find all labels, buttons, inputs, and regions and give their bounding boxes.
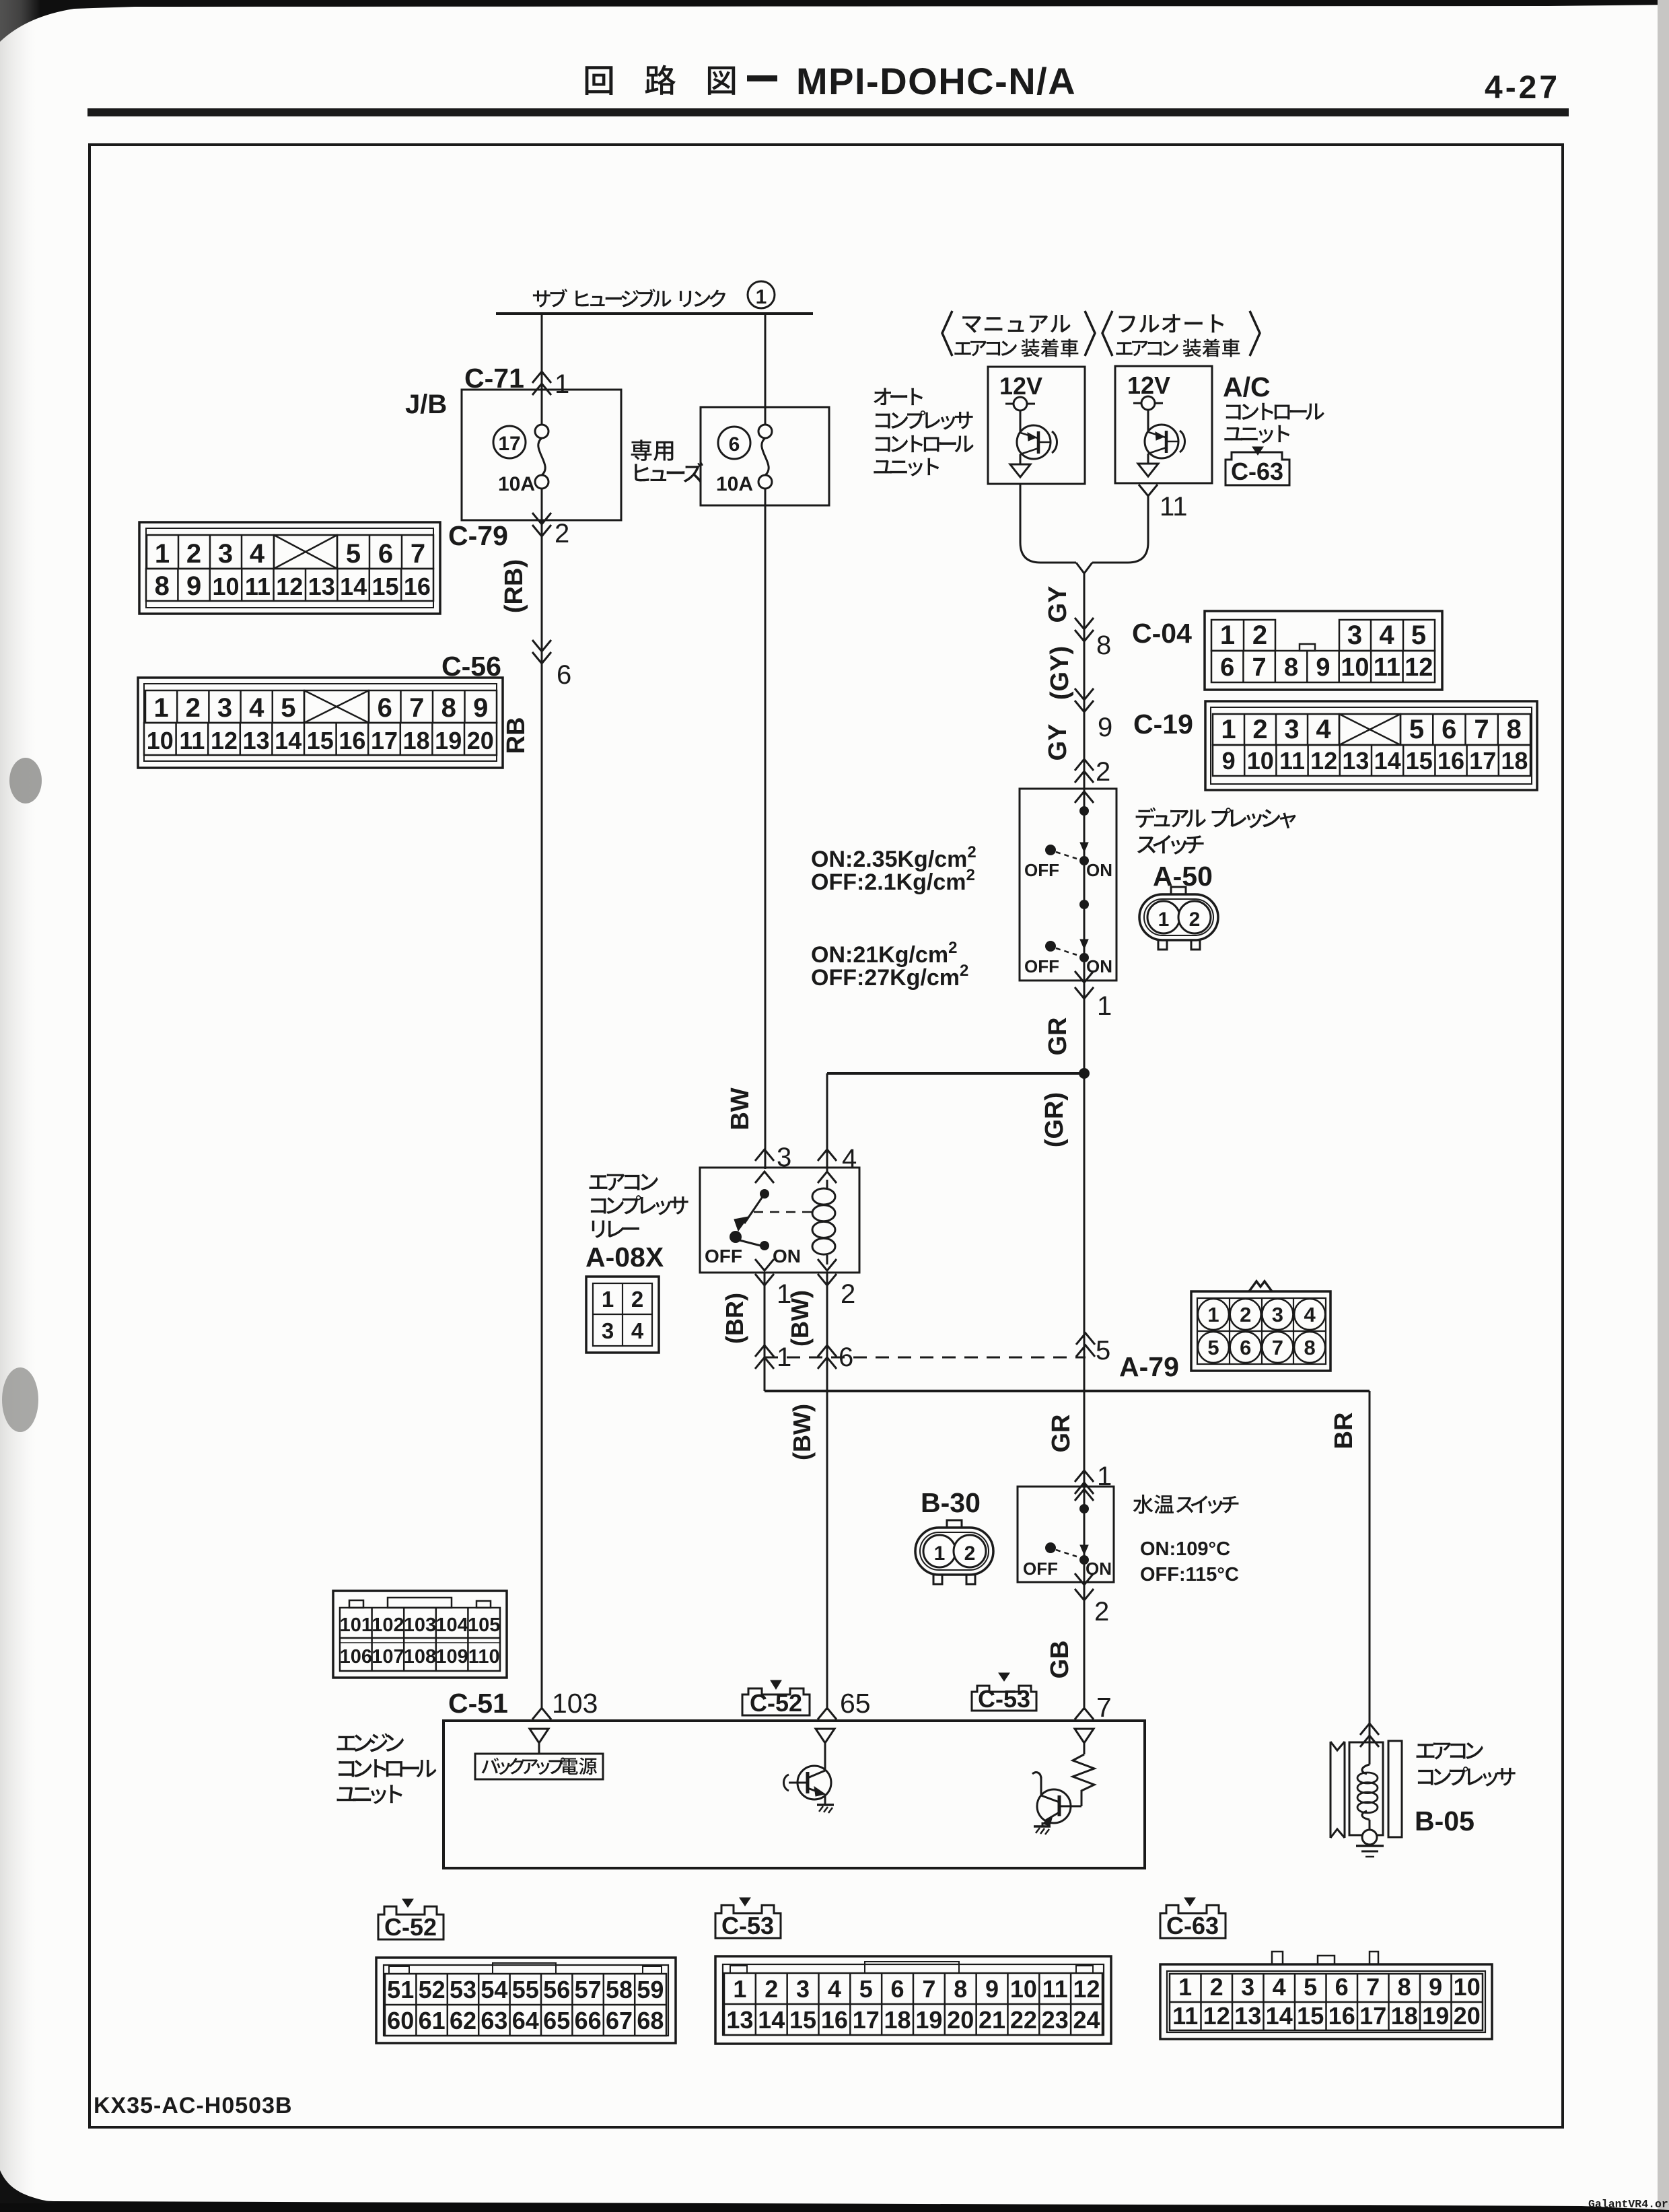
svg-text:9: 9	[1222, 747, 1236, 775]
label aircon compressor 2	[1418, 1767, 1516, 1787]
ECU transistor Q1 (pin 65)	[816, 1729, 834, 1743]
svg-text:(BW): (BW)	[788, 1404, 816, 1460]
svg-text:5: 5	[1411, 620, 1426, 650]
chevron pin 11	[1139, 485, 1158, 496]
svg-text:13: 13	[1342, 747, 1369, 775]
svg-text:8: 8	[441, 693, 456, 723]
svg-text:102: 102	[371, 1614, 404, 1636]
svg-text:9: 9	[1316, 653, 1330, 682]
svg-text:10: 10	[1247, 747, 1274, 775]
wire full-auto unit down	[1092, 496, 1148, 563]
connector C-63 tag top	[1226, 452, 1289, 485]
svg-text:64: 64	[512, 2007, 539, 2034]
chevron below B-30	[1075, 1589, 1094, 1600]
svg-text:15: 15	[789, 2006, 816, 2034]
svg-text:20: 20	[467, 727, 494, 754]
A-79 pin5 chevrons	[1076, 1333, 1095, 1357]
svg-text:13: 13	[308, 573, 335, 600]
svg-text:12: 12	[1203, 2002, 1230, 2030]
svg-text:10: 10	[147, 727, 174, 754]
svg-text:51: 51	[387, 1976, 414, 2003]
A-79 pin1 chevrons	[755, 1345, 774, 1369]
svg-text:67: 67	[606, 2007, 633, 2034]
svg-text:63: 63	[481, 2007, 507, 2034]
label dual pressure	[1136, 808, 1296, 829]
svg-text:GR: GR	[1047, 1415, 1075, 1453]
diagram border frame	[90, 145, 1563, 2127]
connector chevrons pin2 switch	[1075, 759, 1094, 783]
label auto compressor 1	[874, 388, 923, 405]
wire merged down (GY)	[1084, 573, 1086, 1710]
svg-text:7: 7	[411, 539, 425, 569]
ECU pin103 triangle	[530, 1729, 548, 1743]
svg-text:8: 8	[1304, 1336, 1315, 1359]
wire BR down to compressor	[1369, 1391, 1371, 1742]
svg-text:11: 11	[179, 727, 205, 754]
bus wire horizontal	[496, 312, 813, 315]
svg-text:C-53: C-53	[721, 1912, 774, 1939]
label aircon-equipped right	[1116, 338, 1240, 357]
fuse 17 element	[535, 425, 548, 438]
page right edge band	[1658, 0, 1669, 2212]
svg-text:6: 6	[378, 693, 392, 723]
svg-text:2: 2	[765, 1975, 778, 2003]
backup power label box	[475, 1754, 603, 1779]
svg-text:2: 2	[1240, 1303, 1251, 1326]
svg-text:12V: 12V	[999, 372, 1042, 400]
label engine 2	[339, 1759, 436, 1777]
svg-text:8: 8	[1096, 631, 1111, 660]
svg-text:11: 11	[1279, 747, 1305, 775]
svg-text:C-79: C-79	[448, 520, 508, 551]
svg-text:18: 18	[1391, 2002, 1418, 2030]
svg-text:58: 58	[606, 1976, 633, 2003]
svg-text:GY: GY	[1044, 586, 1072, 623]
svg-text:110: 110	[468, 1646, 500, 1668]
connector C-56 20-pin	[138, 678, 503, 768]
header rule	[87, 108, 1569, 116]
svg-text:52: 52	[419, 1976, 446, 2003]
svg-text:B-05: B-05	[1415, 1806, 1475, 1836]
label aircon compressor 1	[1417, 1742, 1483, 1759]
svg-text:1: 1	[155, 539, 170, 569]
ECU pin65 chevrons	[818, 1708, 837, 1719]
auto compressor control unit box with transistor	[988, 367, 1085, 484]
svg-text:9: 9	[186, 571, 201, 601]
connector B-30 symbol	[915, 1528, 993, 1575]
svg-text:3: 3	[1241, 1973, 1254, 2001]
svg-text:16: 16	[821, 2006, 848, 2034]
svg-text:6: 6	[378, 539, 393, 569]
svg-text:7: 7	[1272, 1336, 1283, 1359]
relay pin4 chevrons	[818, 1149, 837, 1161]
svg-text:OFF: OFF	[1023, 1559, 1058, 1579]
svg-text:4: 4	[1273, 1973, 1286, 2001]
svg-text:9: 9	[985, 1975, 999, 2003]
svg-text:ON: ON	[1086, 860, 1112, 880]
svg-text:1: 1	[602, 1287, 614, 1312]
connector A-79 8-pin	[1249, 1281, 1272, 1291]
svg-text:19: 19	[435, 727, 462, 754]
wire bus to J/B	[541, 314, 543, 431]
svg-text:1: 1	[756, 286, 767, 308]
svg-text:11: 11	[245, 573, 271, 600]
svg-text:65: 65	[840, 1688, 871, 1719]
svg-text:3: 3	[218, 539, 233, 569]
svg-text:OFF: OFF	[1024, 956, 1059, 976]
svg-text:C-63: C-63	[1166, 1912, 1219, 1939]
svg-text:OFF:115°C: OFF:115°C	[1140, 1564, 1239, 1585]
svg-text:3: 3	[796, 1975, 810, 2003]
label senyou (dedicated)	[631, 439, 674, 461]
svg-text:5: 5	[1096, 1336, 1110, 1365]
J/B box	[462, 390, 621, 520]
relay A-08X box	[700, 1168, 859, 1273]
svg-text:OFF: OFF	[1024, 860, 1059, 880]
connector A-50 symbol	[1139, 894, 1218, 940]
svg-text:1: 1	[1221, 715, 1236, 744]
label backup power	[481, 1757, 597, 1775]
fuse 6 element	[758, 425, 772, 438]
label ac control 1	[1226, 403, 1324, 420]
svg-text:16: 16	[1437, 747, 1464, 775]
svg-text:4: 4	[842, 1144, 857, 1174]
svg-text:23: 23	[1042, 2006, 1069, 2034]
svg-text:11: 11	[1172, 2002, 1198, 2030]
label engine 1	[337, 1733, 404, 1752]
svg-text:C-19: C-19	[1133, 709, 1193, 740]
wire relay pin2 down (BW)	[826, 1273, 828, 1710]
svg-text:9: 9	[1098, 713, 1112, 742]
svg-text:6: 6	[729, 433, 740, 456]
svg-text:C-51: C-51	[448, 1688, 508, 1719]
svg-text:11: 11	[1374, 653, 1400, 682]
A-79 pin6 chevrons	[818, 1345, 837, 1369]
svg-text:4: 4	[631, 1318, 644, 1343]
svg-text:(BW): (BW)	[786, 1290, 814, 1347]
wire fuse to relay pin3 (BW)	[765, 489, 767, 1169]
title kanji 路	[645, 65, 676, 94]
label auto compressor 2	[876, 411, 973, 430]
svg-text:2: 2	[841, 1279, 855, 1309]
svg-text:108: 108	[404, 1646, 436, 1668]
connector C-63 20-pin bottom	[1160, 1964, 1492, 2039]
svg-text:17: 17	[1359, 2002, 1386, 2030]
svg-text:12: 12	[276, 573, 303, 600]
svg-text:20: 20	[1454, 2002, 1481, 2030]
svg-text:1: 1	[777, 1343, 791, 1372]
connector A-08X 4-pin	[586, 1277, 659, 1353]
svg-text:15: 15	[1406, 747, 1433, 775]
svg-text:1: 1	[153, 693, 168, 723]
svg-text:12: 12	[1405, 653, 1433, 682]
svg-text:7: 7	[409, 693, 424, 723]
connector C-52 18-pin bottom	[376, 1958, 676, 2043]
svg-text:1: 1	[1220, 620, 1235, 650]
svg-text:3: 3	[217, 693, 232, 723]
svg-text:2: 2	[186, 539, 201, 569]
svg-text:7: 7	[1474, 715, 1489, 744]
svg-text:(RB): (RB)	[500, 559, 528, 613]
svg-text:109: 109	[435, 1646, 468, 1668]
svg-text:11: 11	[1160, 492, 1188, 522]
svg-text:2: 2	[1189, 908, 1201, 931]
fuse 17 circle	[493, 426, 526, 458]
svg-text:GY: GY	[1044, 724, 1072, 761]
label full-auto	[1119, 314, 1224, 332]
svg-text:14: 14	[275, 727, 301, 754]
svg-text:101: 101	[340, 1614, 372, 1636]
svg-text:6: 6	[1442, 715, 1456, 744]
svg-text:8: 8	[1507, 715, 1522, 744]
svg-text:21: 21	[979, 2006, 1005, 2034]
left hole punch lower	[2, 1367, 38, 1432]
svg-text:19: 19	[1422, 2002, 1449, 2030]
svg-text:2: 2	[1096, 757, 1110, 787]
ECU pin103 chevrons	[532, 1708, 551, 1719]
svg-text:18: 18	[1501, 747, 1528, 775]
svg-text:10: 10	[212, 573, 239, 600]
svg-text:4: 4	[1316, 715, 1331, 744]
svg-text:2: 2	[964, 1542, 976, 1565]
label manual	[962, 315, 1070, 333]
svg-text:OFF:27Kg/cm2: OFF:27Kg/cm2	[811, 962, 968, 991]
svg-text:12: 12	[211, 727, 238, 754]
svg-text:14: 14	[1266, 2002, 1293, 2030]
svg-text:10: 10	[1341, 653, 1369, 682]
svg-text:19: 19	[915, 2006, 942, 2034]
svg-text:107: 107	[371, 1646, 404, 1668]
svg-text:C-52: C-52	[750, 1689, 802, 1717]
connector C-79 chevrons pin2	[532, 513, 551, 536]
svg-text:ON: ON	[1086, 1559, 1112, 1579]
svg-text:C-04: C-04	[1132, 618, 1192, 649]
svg-text:5: 5	[281, 693, 295, 723]
label ac control 2	[1224, 425, 1289, 443]
svg-text:6: 6	[1240, 1336, 1251, 1359]
svg-text:1: 1	[1178, 1973, 1192, 2001]
svg-text:14: 14	[758, 2006, 785, 2034]
svg-text:2: 2	[555, 519, 569, 548]
svg-text:2: 2	[1094, 1597, 1109, 1627]
label auto compressor 3	[876, 435, 974, 452]
svg-text:57: 57	[575, 1976, 602, 2003]
svg-text:4: 4	[249, 693, 264, 723]
title kanji 図	[708, 67, 735, 95]
svg-text:GB: GB	[1046, 1641, 1074, 1679]
connector A-79 dashed line	[765, 1357, 1086, 1359]
svg-text:MPI-DOHC-N/A: MPI-DOHC-N/A	[796, 60, 1076, 102]
svg-text:J/B: J/B	[405, 390, 447, 419]
svg-text:4: 4	[250, 539, 265, 569]
svg-text:9: 9	[473, 693, 488, 723]
svg-text:61: 61	[419, 2007, 446, 2034]
label auto compressor 4	[874, 458, 939, 476]
compressor B-05 symbol	[1330, 1742, 1332, 1838]
page bottom scan bar	[0, 2199, 1669, 2212]
svg-text:65: 65	[543, 2007, 570, 2034]
label relay 3	[592, 1220, 639, 1238]
svg-text:62: 62	[450, 2007, 476, 2034]
water temp switch B-30 box	[1018, 1487, 1114, 1582]
B-30 pin1 chevrons	[1075, 1470, 1094, 1494]
svg-text:106: 106	[340, 1646, 372, 1668]
svg-text:54: 54	[481, 1976, 507, 2003]
svg-text:5: 5	[1304, 1973, 1317, 2001]
svg-text:1: 1	[934, 1542, 946, 1565]
svg-text:1: 1	[1158, 908, 1170, 931]
svg-text:A/C: A/C	[1223, 371, 1271, 402]
svg-text:66: 66	[575, 2007, 602, 2034]
svg-text:22: 22	[1010, 2006, 1037, 2034]
svg-text:14: 14	[340, 573, 367, 600]
connector chevron below switch	[1075, 987, 1094, 999]
connector C-52 tag mid	[771, 1680, 781, 1689]
svg-text:59: 59	[637, 1976, 664, 2003]
svg-text:2: 2	[1210, 1973, 1223, 2001]
svg-text:104: 104	[435, 1614, 468, 1636]
svg-text:20: 20	[947, 2006, 974, 2034]
svg-text:4: 4	[1379, 620, 1394, 650]
connector C-53 tag bottom	[740, 1898, 750, 1906]
wire BR horizontal	[765, 1390, 1370, 1392]
svg-text:OFF: OFF	[705, 1246, 742, 1266]
relay pin1 chevron below	[755, 1274, 774, 1285]
svg-text:13: 13	[243, 727, 270, 754]
svg-text:10: 10	[1454, 1973, 1481, 2001]
svg-text:1: 1	[1207, 1303, 1219, 1326]
junction dot GR	[1079, 1068, 1090, 1079]
wire manual unit down	[1020, 484, 1076, 563]
svg-text:68: 68	[637, 2007, 664, 2034]
fuse 6 circle	[718, 427, 750, 459]
svg-text:56: 56	[543, 1976, 570, 2003]
svg-text:(GY): (GY)	[1046, 646, 1074, 700]
ECU pin7 chevrons	[1075, 1708, 1094, 1719]
C-63 tag pointer	[1252, 447, 1263, 455]
svg-text:60: 60	[387, 2007, 414, 2034]
svg-text:16: 16	[404, 573, 431, 600]
svg-text:5: 5	[1207, 1336, 1219, 1359]
svg-text:8: 8	[155, 571, 170, 601]
svg-text:17: 17	[1469, 747, 1496, 775]
svg-text:13: 13	[726, 2006, 753, 2034]
svg-text:14: 14	[1374, 747, 1401, 775]
label fuse (hyuzu)	[635, 462, 703, 483]
svg-text:1: 1	[555, 369, 569, 399]
connector C-79 16-pin	[139, 522, 440, 614]
page left edge shading	[0, 0, 40, 2212]
wire relay pin1 down (BR)	[764, 1273, 766, 1391]
svg-text:15: 15	[371, 573, 398, 600]
svg-text:ON:21Kg/cm2: ON:21Kg/cm2	[811, 939, 957, 968]
svg-text:4-27: 4-27	[1485, 70, 1560, 106]
svg-text:KX35-AC-H0503B: KX35-AC-H0503B	[94, 2093, 293, 2118]
svg-text:2: 2	[186, 693, 201, 723]
svg-text:18: 18	[884, 2006, 911, 2034]
label aircon (relay) 1	[590, 1174, 658, 1190]
inline connector chevrons pin6	[532, 640, 551, 664]
svg-text:105: 105	[468, 1614, 500, 1636]
label sub fusible link	[533, 289, 725, 307]
svg-text:10A: 10A	[716, 473, 753, 495]
svg-text:12: 12	[1073, 1975, 1100, 2003]
label switch	[1137, 835, 1204, 855]
connector C-53 24-pin bottom	[715, 1956, 1111, 2044]
svg-text:17: 17	[371, 727, 398, 754]
svg-text:(GR): (GR)	[1040, 1092, 1069, 1147]
title kanji 回	[585, 66, 613, 95]
svg-text:12: 12	[1310, 747, 1337, 775]
svg-text:5: 5	[1409, 715, 1424, 744]
svg-text:24: 24	[1073, 2006, 1100, 2034]
svg-text:2: 2	[1252, 715, 1267, 744]
svg-text:C-63: C-63	[1231, 458, 1283, 485]
svg-text:8: 8	[954, 1975, 967, 2003]
ECU transistor Q2 with resistor (pin 7)	[1075, 1729, 1094, 1743]
svg-text:11: 11	[1042, 1975, 1068, 2003]
svg-text:2: 2	[1252, 620, 1267, 650]
svg-text:10: 10	[1010, 1975, 1037, 2003]
svg-text:16: 16	[339, 727, 365, 754]
svg-text:C-52: C-52	[384, 1913, 437, 1941]
svg-text:8: 8	[1398, 1973, 1411, 2001]
dedicated fuse box	[701, 407, 829, 505]
svg-text:55: 55	[512, 1976, 539, 2003]
svg-text:2: 2	[631, 1287, 643, 1312]
svg-text:6: 6	[557, 660, 571, 690]
svg-text:9: 9	[1429, 1973, 1442, 2001]
inline connector chevrons pin9	[1075, 688, 1094, 712]
connector C-63 tag bottom	[1184, 1898, 1195, 1906]
svg-text:GalantVR4.org: GalantVR4.org	[1588, 2198, 1669, 2211]
svg-text:12V: 12V	[1127, 371, 1170, 399]
A/C control unit box with transistor	[1115, 366, 1212, 483]
page bottom-left corner shade	[0, 2170, 61, 2203]
svg-text:6: 6	[891, 1975, 904, 2003]
svg-text:103: 103	[404, 1614, 436, 1636]
svg-text:(BR): (BR)	[721, 1293, 748, 1344]
circled 1 fusible link	[748, 281, 775, 308]
svg-text:8: 8	[1284, 653, 1298, 682]
wire bus to fuse box	[765, 314, 767, 431]
page top scan bar	[0, 0, 1669, 42]
svg-text:GR: GR	[1044, 1018, 1072, 1056]
label compressor (relay) 2	[591, 1195, 688, 1215]
svg-text:1: 1	[733, 1975, 746, 2003]
relay pin3 chevrons	[755, 1149, 774, 1161]
relay pin2 chevron below	[818, 1274, 837, 1285]
svg-text:ON: ON	[773, 1246, 801, 1266]
svg-text:4: 4	[1304, 1303, 1316, 1326]
left hole punch upper	[9, 758, 42, 804]
wire pin103 to backup label	[538, 1743, 540, 1754]
svg-text:6: 6	[1220, 653, 1234, 682]
connector C-71 chevrons	[532, 371, 551, 395]
svg-text:4: 4	[828, 1975, 841, 2003]
title dash	[747, 75, 777, 81]
svg-text:3: 3	[1272, 1303, 1283, 1326]
svg-text:17: 17	[853, 2006, 880, 2034]
compressor chevrons	[1360, 1723, 1379, 1747]
svg-text:RB: RB	[502, 717, 530, 754]
svg-text:18: 18	[403, 727, 430, 754]
svg-text:3: 3	[1347, 620, 1362, 650]
connector C-19 18-pin	[1205, 701, 1537, 790]
inline connector chevrons pin8	[1075, 618, 1094, 641]
svg-text:16: 16	[1328, 2002, 1355, 2030]
svg-text:15: 15	[307, 727, 334, 754]
